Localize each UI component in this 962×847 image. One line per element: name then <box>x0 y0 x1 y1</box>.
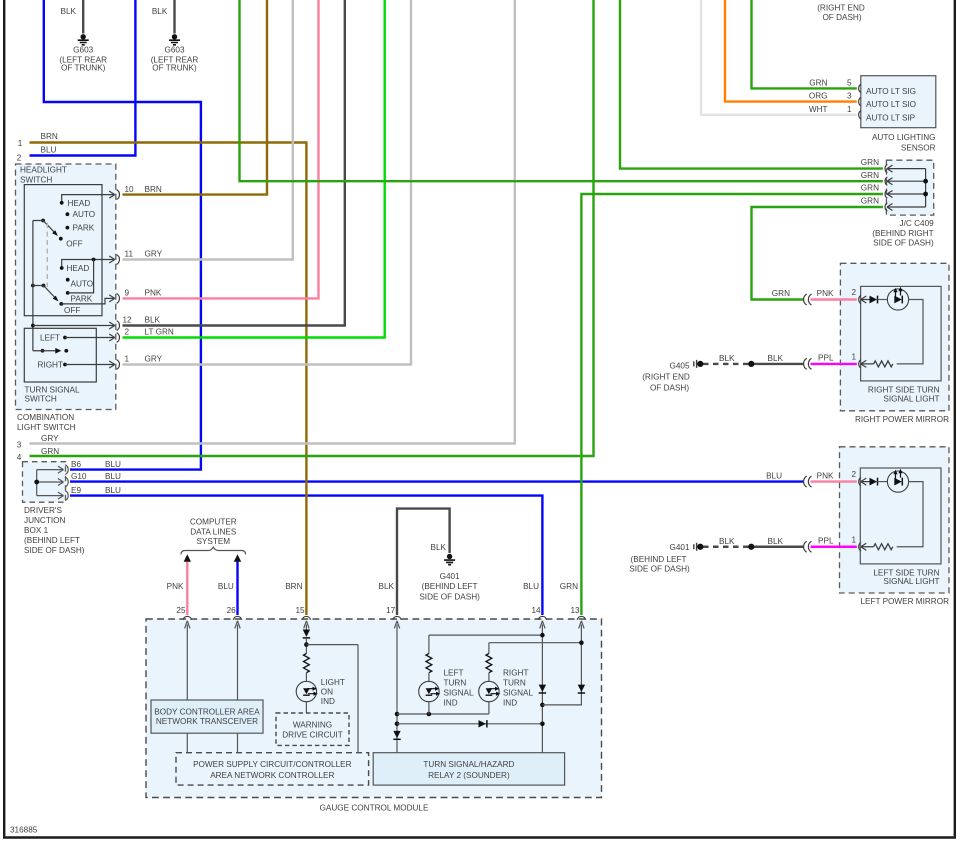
headlight switch inner contact box <box>24 185 102 316</box>
svg-text:E9: E9 <box>71 486 81 495</box>
hazard diode line <box>397 720 542 727</box>
gauge pin 14 <box>531 606 546 620</box>
svg-text:PNK: PNK <box>167 582 184 591</box>
auto lighting sensor pin 1 <box>809 105 861 119</box>
svg-text:316885: 316885 <box>10 826 38 835</box>
wire BLU stub 2 <box>30 0 136 156</box>
svg-text:GRY: GRY <box>145 355 163 364</box>
right mirror internal link <box>897 300 923 364</box>
svg-text:LEFT POWER MIRROR: LEFT POWER MIRROR <box>860 597 949 606</box>
svg-text:BRN: BRN <box>145 185 162 194</box>
svg-text:RIGHT SIDE TURN: RIGHT SIDE TURN <box>868 386 940 395</box>
common line + pin 12 <box>31 221 161 351</box>
GRN label pin 13 <box>560 582 578 591</box>
wire BRN headlight switch pin 10 <box>123 0 268 195</box>
wire BLK dashed G405 <box>703 363 749 365</box>
svg-text:RIGHT: RIGHT <box>503 668 528 677</box>
svg-text:WHT: WHT <box>809 105 828 114</box>
ground G405 <box>642 354 783 392</box>
svg-text:(BEHIND RIGHT: (BEHIND RIGHT <box>872 229 933 238</box>
svg-text:BLU: BLU <box>41 146 57 155</box>
wire BLK headlight switch pin 12 <box>123 0 345 326</box>
wire BLK solid G405 <box>754 363 804 365</box>
svg-text:DATA LINES: DATA LINES <box>190 527 237 536</box>
turn signal pin 1 <box>38 355 163 370</box>
wire PNK to left mirror pin 2 <box>811 480 857 482</box>
svg-text:SIGNAL: SIGNAL <box>444 688 474 697</box>
svg-text:OFF: OFF <box>64 306 80 315</box>
svg-text:1: 1 <box>851 535 856 544</box>
wire PNK headlight switch pin 9 <box>123 0 319 298</box>
svg-text:HEAD: HEAD <box>67 264 90 273</box>
svg-text:17: 17 <box>386 606 396 615</box>
wire GRN J/C C409 row 3 to gauge pin 13 <box>581 194 883 615</box>
svg-text:TURN: TURN <box>503 678 526 687</box>
headlight switch pin 10 <box>62 185 162 203</box>
svg-text:OF TRUNK): OF TRUNK) <box>61 63 106 72</box>
svg-text:BLK: BLK <box>145 316 161 325</box>
svg-text:2: 2 <box>125 328 130 337</box>
svg-text:GRN: GRN <box>861 184 879 193</box>
wire GRY stub 3 <box>30 0 515 444</box>
left power mirror box <box>840 447 950 606</box>
driver's junction box internals <box>34 460 121 501</box>
svg-text:POWER SUPPLY CIRCUIT/CONTROLLE: POWER SUPPLY CIRCUIT/CONTROLLER <box>193 760 352 769</box>
svg-text:BLU: BLU <box>218 582 234 591</box>
svg-text:1: 1 <box>18 139 23 148</box>
svg-text:GRY: GRY <box>145 250 163 259</box>
svg-text:SWITCH: SWITCH <box>25 394 57 403</box>
svg-text:GRN: GRN <box>772 289 790 298</box>
svg-text:RELAY 2 (SOUNDER): RELAY 2 (SOUNDER) <box>428 771 510 780</box>
wire BLU computer data line to gauge pin 26 <box>236 560 238 615</box>
auto lighting sensor pin 3 <box>809 92 861 106</box>
svg-text:SIDE OF DASH): SIDE OF DASH) <box>629 565 690 574</box>
svg-text:NETWORK TRANSCEIVER: NETWORK TRANSCEIVER <box>156 717 258 726</box>
svg-text:G603: G603 <box>164 45 184 54</box>
right mirror pin 1 + resistor <box>851 352 892 368</box>
wire PNK computer data line to gauge pin 25 <box>186 560 188 615</box>
wire GRY turn signal pin 1 <box>123 0 412 365</box>
svg-text:12: 12 <box>123 316 133 325</box>
right mirror diode <box>870 296 888 304</box>
svg-text:DRIVER'S: DRIVER'S <box>24 506 62 515</box>
svg-text:BRN: BRN <box>285 582 302 591</box>
svg-text:4: 4 <box>17 453 22 462</box>
wire 4 GRN label <box>17 447 60 462</box>
wire GRN J/C C409 row 4 to right mirror <box>752 207 883 300</box>
svg-text:1: 1 <box>125 355 130 364</box>
section 2 head-park link <box>68 260 94 293</box>
left turn signal ind circuit <box>419 635 543 714</box>
svg-text:SYSTEM: SYSTEM <box>196 537 230 546</box>
svg-text:LEFT: LEFT <box>40 334 60 343</box>
svg-text:BLK: BLK <box>719 354 735 363</box>
svg-text:IND: IND <box>321 697 335 706</box>
svg-text:BLK: BLK <box>768 354 784 363</box>
wire GRN J/C C409 row 2 <box>240 0 883 181</box>
svg-text:PNK: PNK <box>817 289 834 298</box>
connector BLK/PPL right mirror <box>804 354 834 370</box>
turn signal switch inner box <box>24 328 96 403</box>
wire PNK to right mirror pin 2 <box>811 298 857 300</box>
left mirror pin 2 <box>851 470 872 486</box>
svg-text:1: 1 <box>851 352 856 361</box>
svg-text:ON: ON <box>321 687 333 696</box>
svg-text:BLU: BLU <box>105 460 121 469</box>
BLU label pin 14 <box>523 582 539 591</box>
wire BLK solid G401 <box>754 546 804 548</box>
svg-text:PNK: PNK <box>145 289 162 298</box>
svg-text:5: 5 <box>847 78 852 87</box>
auto lighting sensor box <box>861 76 936 153</box>
svg-text:AUTO LIGHTING: AUTO LIGHTING <box>872 133 936 142</box>
svg-text:G603: G603 <box>73 45 93 54</box>
pin 14 internal line <box>539 621 546 753</box>
svg-text:RIGHT POWER MIRROR: RIGHT POWER MIRROR <box>855 415 949 424</box>
wire BLU pin B6 driver's junction box <box>44 0 201 470</box>
svg-text:LEFT: LEFT <box>444 668 464 677</box>
svg-text:SENSOR: SENSOR <box>901 144 936 153</box>
svg-text:(RIGHT END: (RIGHT END <box>642 372 690 381</box>
svg-text:G401: G401 <box>440 572 460 581</box>
pin 17 internal line <box>393 621 400 753</box>
svg-text:GRN: GRN <box>809 78 827 87</box>
gauge pin 13 <box>570 606 585 620</box>
svg-text:(RIGHT END: (RIGHT END <box>817 3 865 12</box>
ground G401 upper <box>419 543 480 602</box>
gauge pin 17 <box>386 606 401 620</box>
svg-text:GRN: GRN <box>861 197 879 206</box>
connector BLU/PNK left mirror <box>766 471 834 487</box>
svg-text:GRN: GRN <box>861 171 879 180</box>
mechanical link dashed <box>46 223 48 287</box>
svg-text:BODY CONTROLLER AREA: BODY CONTROLLER AREA <box>154 707 260 716</box>
right mirror pin 2 <box>851 288 872 304</box>
svg-text:LIGHT: LIGHT <box>321 678 345 687</box>
svg-text:SIGNAL LIGHT: SIGNAL LIGHT <box>883 577 939 586</box>
pin 15 internal: arrow, diode, resistor, LED <box>296 621 358 753</box>
headlight switch section 2 contacts <box>59 264 93 315</box>
left side turn signal light box <box>860 468 941 586</box>
headlight switch section 1 contacts <box>59 199 95 249</box>
svg-text:BLK: BLK <box>431 543 447 552</box>
pin 13 internal line <box>542 621 585 705</box>
svg-text:COMPUTER: COMPUTER <box>190 518 237 527</box>
J/C C409 GRN labels <box>861 158 879 205</box>
wire LT GRN turn signal pin 2 <box>123 0 385 338</box>
pin 26 internal line <box>235 621 240 700</box>
turn signal wiper arm <box>33 348 68 354</box>
wire BLK dashed G401 <box>703 546 749 548</box>
wire 3 GRY label <box>17 434 59 449</box>
BLU label pin 26 <box>218 582 234 591</box>
svg-text:GRY: GRY <box>41 434 59 443</box>
svg-text:TURN: TURN <box>444 678 467 687</box>
svg-text:AUTO LT SIG: AUTO LT SIG <box>866 87 916 96</box>
svg-text:WARNING: WARNING <box>293 721 332 730</box>
svg-text:OF DASH): OF DASH) <box>650 383 689 392</box>
svg-text:DRIVE CIRCUIT: DRIVE CIRCUIT <box>282 730 343 739</box>
svg-text:2: 2 <box>851 470 856 479</box>
wire BLK to ground G603 right <box>173 0 175 34</box>
svg-text:JUNCTION: JUNCTION <box>24 516 65 525</box>
headlight switch section 1 wiper arm <box>33 219 58 236</box>
svg-text:9: 9 <box>125 289 130 298</box>
wire BLU pin G10 to left mirror <box>70 480 804 482</box>
svg-text:LT GRN: LT GRN <box>145 328 174 337</box>
left mirror pin 1 + resistor <box>851 535 892 551</box>
wire GRY headlight switch pin 11 <box>123 0 293 260</box>
turn signal/hazard relay 2 box <box>373 753 564 785</box>
svg-text:GRN: GRN <box>41 447 59 456</box>
svg-text:BRN: BRN <box>41 132 58 141</box>
ground G603 left <box>59 7 107 72</box>
svg-text:10: 10 <box>125 185 135 194</box>
svg-text:BLK: BLK <box>379 582 395 591</box>
wire WHT auto lighting sensor pin 1 <box>701 0 857 115</box>
svg-text:G405: G405 <box>669 362 689 371</box>
svg-text:SIDE OF DASH): SIDE OF DASH) <box>24 546 85 555</box>
svg-text:PPL: PPL <box>818 536 834 545</box>
BLK label pin 17 <box>379 582 395 591</box>
wire PPL to right mirror pin 1 <box>811 363 857 365</box>
LEFT TURN SIGNAL IND label <box>444 668 474 707</box>
svg-text:13: 13 <box>570 606 580 615</box>
connector GRN/PNK right mirror <box>772 289 834 305</box>
right side turn signal light box <box>861 286 942 403</box>
svg-text:GRN: GRN <box>861 158 879 167</box>
svg-text:TURN SIGNAL: TURN SIGNAL <box>25 386 80 395</box>
headlight switch section 2 wiper arm <box>31 284 58 302</box>
svg-text:3: 3 <box>847 92 852 101</box>
svg-text:AREA NETWORK CONTROLLER: AREA NETWORK CONTROLLER <box>210 771 334 780</box>
svg-text:GRN: GRN <box>560 582 578 591</box>
wire GRN J/C C409 row 1 <box>620 0 883 169</box>
svg-text:BLU: BLU <box>523 582 539 591</box>
BRN label pin 15 <box>285 582 302 591</box>
J/C C409 junction connector box <box>872 160 934 247</box>
svg-text:TURN SIGNAL/HAZARD: TURN SIGNAL/HAZARD <box>423 760 514 769</box>
J/C C409 internals <box>887 169 928 207</box>
wire GRN stub 4 <box>30 0 594 456</box>
svg-text:OF TRUNK): OF TRUNK) <box>152 63 197 72</box>
J/C C409 pin arcs <box>885 164 892 211</box>
gauge pin 15 <box>295 606 310 620</box>
svg-text:SIGNAL: SIGNAL <box>503 688 533 697</box>
svg-text:BLK: BLK <box>719 537 735 546</box>
warning drive circuit box <box>276 713 349 745</box>
svg-text:LEFT SIDE TURN: LEFT SIDE TURN <box>873 568 939 577</box>
svg-text:BLU: BLU <box>105 486 121 495</box>
svg-text:HEADLIGHT: HEADLIGHT <box>20 166 67 175</box>
svg-text:IND: IND <box>444 698 458 707</box>
svg-text:AUTO: AUTO <box>71 280 94 289</box>
svg-text:AUTO: AUTO <box>73 210 96 219</box>
svg-text:OF DASH): OF DASH) <box>822 13 861 22</box>
svg-text:PPL: PPL <box>818 354 834 363</box>
svg-text:14: 14 <box>531 606 541 615</box>
svg-text:AUTO LT SIP: AUTO LT SIP <box>866 113 916 122</box>
wire BLK gauge pin 17 to ground G401 <box>397 509 450 615</box>
svg-text:PARK: PARK <box>71 295 93 304</box>
svg-text:G10: G10 <box>71 472 87 481</box>
svg-text:25: 25 <box>176 606 186 615</box>
PNK label pin 25 <box>167 582 184 591</box>
left mirror internal link <box>897 482 923 547</box>
svg-text:LIGHT SWITCH: LIGHT SWITCH <box>17 423 76 432</box>
connector BLK/PPL left mirror <box>804 536 834 552</box>
power supply circuit/controller area network controller box <box>176 753 369 785</box>
svg-text:SIDE OF DASH): SIDE OF DASH) <box>419 592 480 601</box>
svg-text:OFF: OFF <box>66 240 82 249</box>
headlight switch pin 11 <box>62 250 163 268</box>
svg-text:GAUGE CONTROL MODULE: GAUGE CONTROL MODULE <box>320 804 429 813</box>
headlight switch box <box>16 164 116 410</box>
wire BRN 1 to gauge pin 15 <box>30 143 307 616</box>
svg-text:BLK: BLK <box>61 7 77 16</box>
transceiver to controller lines <box>187 733 237 753</box>
svg-text:G401: G401 <box>669 543 689 552</box>
svg-text:2: 2 <box>17 153 22 162</box>
svg-text:RIGHT: RIGHT <box>38 361 63 370</box>
svg-text:15: 15 <box>295 606 305 615</box>
left mirror LED <box>887 469 908 492</box>
svg-text:SWITCH: SWITCH <box>20 175 52 184</box>
svg-text:B6: B6 <box>71 460 81 469</box>
wire ORG auto lighting sensor pin 3 <box>725 0 857 102</box>
wire GRN auto lighting sensor pin 5 <box>752 0 857 88</box>
gauge pin 25 <box>176 606 191 620</box>
LIGHT ON IND label <box>321 678 345 706</box>
arrow BLU data line <box>234 554 241 562</box>
svg-text:BLK: BLK <box>152 7 168 16</box>
wire BLK to ground G603 left <box>82 0 84 34</box>
arrow PNK data line <box>184 554 191 562</box>
right mirror LED <box>887 287 908 310</box>
svg-text:26: 26 <box>227 606 237 615</box>
svg-text:BLU: BLU <box>766 471 782 480</box>
headlight switch pin 9 <box>61 289 162 304</box>
svg-text:(BEHIND LEFT: (BEHIND LEFT <box>631 555 687 564</box>
svg-text:HEAD: HEAD <box>68 199 91 208</box>
driver's junction box 1 <box>23 462 85 555</box>
wire BLU pin E9 to gauge pin 14 <box>70 496 542 615</box>
right turn signal ind circuit <box>479 643 582 714</box>
svg-text:(BEHIND LEFT: (BEHIND LEFT <box>24 536 80 545</box>
svg-text:11: 11 <box>125 250 134 259</box>
svg-text:SIDE OF DASH): SIDE OF DASH) <box>873 239 934 248</box>
RIGHT TURN SIGNAL IND label <box>503 668 533 707</box>
svg-text:3: 3 <box>17 440 22 449</box>
svg-text:IND: IND <box>503 698 517 707</box>
turn signal pin 2 <box>40 328 174 343</box>
computer data lines system <box>181 518 246 555</box>
auto lighting sensor pin 5 <box>809 78 861 92</box>
indicator common line <box>397 712 489 717</box>
left mirror diode <box>870 478 888 486</box>
svg-text:ORG: ORG <box>809 92 828 101</box>
body controller area network transceiver box <box>151 700 263 733</box>
ground G603 right <box>151 7 199 72</box>
gauge control module box <box>146 619 602 813</box>
ground G401 lower <box>629 537 783 574</box>
wire PPL to left mirror pin 1 <box>811 546 857 548</box>
svg-text:J/C C409: J/C C409 <box>900 219 935 228</box>
caption (RIGHT END OF DASH) top right <box>817 3 865 22</box>
svg-text:COMBINATION: COMBINATION <box>17 413 74 422</box>
svg-text:(BEHIND LEFT: (BEHIND LEFT <box>422 582 478 591</box>
wire 2 BLU label <box>17 146 57 163</box>
svg-text:BLK: BLK <box>768 537 784 546</box>
svg-text:AUTO LT SIO: AUTO LT SIO <box>866 100 916 109</box>
svg-text:SIGNAL LIGHT: SIGNAL LIGHT <box>883 394 939 403</box>
wire 1 BRN label <box>18 132 58 148</box>
combination light switch caption <box>17 413 76 432</box>
svg-text:2: 2 <box>851 288 856 297</box>
svg-text:PARK: PARK <box>73 224 95 233</box>
pin 25 internal line <box>185 621 190 700</box>
svg-text:PNK: PNK <box>817 471 834 480</box>
gauge pin 26 <box>227 606 242 620</box>
svg-text:BOX 1: BOX 1 <box>24 526 49 535</box>
svg-text:1: 1 <box>847 105 852 114</box>
svg-text:BLU: BLU <box>105 472 121 481</box>
right power mirror box <box>840 263 949 424</box>
